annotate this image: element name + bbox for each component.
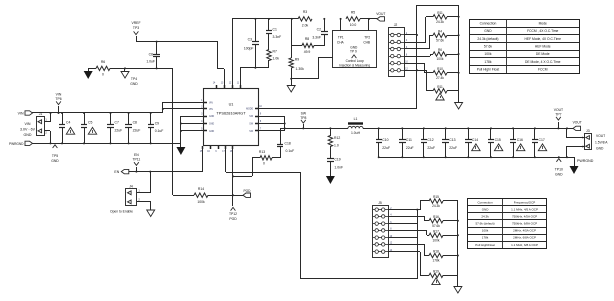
svg-text:Mode: Mode: [539, 22, 547, 26]
svg-text:22uF: 22uF: [406, 146, 414, 150]
wire U1 AGND pins bus: [180, 116, 204, 143]
svg-text:GND: GND: [130, 82, 138, 86]
svg-text:24.3k: 24.3k: [481, 215, 489, 219]
ground FREQ ladder: [454, 287, 462, 294]
svg-text:178k: 178k: [484, 60, 492, 64]
svg-text:R10: R10: [437, 67, 443, 71]
resistor R5 10.0: [346, 11, 360, 28]
test point TP6 VIN: [55, 93, 61, 115]
ground PWRGND arrow output: [570, 157, 594, 174]
label Open to Enable: [110, 210, 133, 214]
svg-text:TP5: TP5: [52, 154, 58, 158]
svg-text:PWRGND: PWRGND: [577, 159, 594, 163]
test point TP3 VREF: [131, 21, 140, 42]
svg-text:R13: R13: [259, 150, 265, 154]
wire MODE vertical bus: [417, 5, 460, 109]
svg-text:1.0uF: 1.0uF: [146, 60, 155, 64]
resistor R16 57.6k: [429, 215, 458, 228]
connector J1: [37, 112, 48, 136]
label J3 VOUT: [595, 134, 608, 151]
svg-text:TP8: TP8: [300, 116, 306, 120]
svg-text:R15: R15: [433, 195, 439, 199]
svg-text:22uF: 22uF: [382, 146, 390, 150]
svg-text:TP6: TP6: [55, 97, 61, 101]
capacitor C13 22uF: [442, 127, 457, 158]
svg-text:100k: 100k: [433, 239, 440, 243]
connector J3: [582, 129, 591, 150]
wire J2 row6 to R21: [404, 69, 433, 91]
resistor R17 100k: [429, 230, 458, 243]
wire U1 PG pin down: [232, 146, 234, 206]
wire U1 FREQ pin to selector J5: [226, 146, 418, 279]
wire J2 row2 to R11: [404, 17, 433, 43]
test point TP1 stub: [340, 18, 342, 31]
svg-text:Frequency/OCP: Frequency/OCP: [514, 200, 536, 204]
svg-text:C2: C2: [317, 28, 321, 32]
wire J5 row1 to R15: [388, 201, 429, 211]
svg-text:GND: GND: [209, 124, 214, 126]
svg-text:R11: R11: [437, 85, 443, 89]
capacitor C14 (DNP): [465, 127, 480, 158]
U1 top pin stubs: [213, 83, 241, 89]
svg-text:100k: 100k: [197, 200, 205, 204]
svg-text:1.0: 1.0: [334, 144, 339, 148]
resistor R15 24.3k: [429, 195, 458, 208]
svg-text:GND: GND: [484, 29, 492, 33]
svg-text:J2: J2: [394, 23, 398, 27]
svg-text:TP3: TP3: [133, 26, 139, 30]
svg-text:C7: C7: [115, 121, 119, 125]
wire U1 SW pins bus: [258, 116, 286, 131]
svg-text:22uF: 22uF: [427, 146, 435, 150]
wire J4 pin2 to ground: [137, 202, 151, 211]
terminal EN: [114, 169, 128, 174]
svg-text:CHB: CHB: [363, 40, 370, 44]
ground TP4: [121, 67, 138, 86]
svg-text:PGD: PGD: [244, 189, 252, 193]
wire J3 pin2 to ground rail: [566, 146, 585, 158]
svg-text:C16: C16: [517, 138, 523, 142]
svg-text:3.3nF: 3.3nF: [312, 36, 321, 40]
svg-text:HEF Mode: HEF Mode: [535, 45, 551, 49]
svg-text:Connection: Connection: [480, 22, 497, 26]
wire R13 to PG node: [233, 158, 253, 177]
resistor R13 0: [252, 150, 280, 166]
svg-text:C5: C5: [88, 121, 92, 125]
svg-text:J5: J5: [378, 201, 382, 205]
svg-text:VREF: VREF: [131, 21, 140, 25]
terminal VIN: [18, 111, 33, 116]
svg-text:C11: C11: [406, 138, 412, 142]
wire VREF rail to U1 pin: [218, 42, 225, 88]
svg-text:Connection: Connection: [477, 200, 493, 204]
svg-text:VIN: VIN: [209, 109, 213, 111]
svg-text:TP 9: TP 9: [350, 50, 357, 54]
svg-text:R16: R16: [433, 215, 439, 219]
svg-text:24.3k: 24.3k: [432, 204, 440, 208]
table frequency OCP configuration: [468, 199, 547, 249]
wire VOUT to J3 pin1: [566, 127, 585, 138]
svg-text:R8: R8: [305, 37, 309, 41]
svg-text:GND: GND: [51, 159, 59, 163]
svg-text:0.1uF: 0.1uF: [286, 149, 295, 153]
wire VIN input rail: [32, 112, 163, 114]
svg-text:VIN: VIN: [209, 103, 213, 105]
IC U1 TPS62810: [204, 89, 259, 146]
control loop injection box U2: [333, 31, 377, 68]
inductor L1 1.0uH: [348, 117, 363, 135]
wire J4 pin1 to EN: [137, 171, 151, 193]
wire SW rail to L1: [280, 128, 348, 130]
svg-text:1.0k: 1.0k: [273, 57, 280, 61]
svg-text:GND: GND: [555, 173, 563, 177]
svg-text:J3: J3: [586, 129, 590, 133]
capacitor C18 0.1uF snubber: [277, 128, 294, 158]
label VIN voltage range: [20, 122, 36, 137]
svg-text:PWRGND: PWRGND: [9, 142, 24, 146]
wire VOUT ground rail: [378, 157, 574, 159]
svg-text:2.0k: 2.0k: [302, 24, 309, 28]
wire VOUT rail: [363, 128, 573, 130]
wire VREF rail: [136, 41, 218, 43]
svg-text:C10: C10: [382, 138, 388, 142]
U1 bottom pin stubs: [200, 146, 233, 153]
wire R9 node to control loop box: [291, 58, 333, 80]
svg-text:57.6k: 57.6k: [436, 39, 444, 43]
wire J2 row1 to GND bus: [404, 34, 418, 36]
svg-text:1.1 MHz, 6/8 A OCP: 1.1 MHz, 6/8 A OCP: [511, 243, 538, 247]
resistor R12 1.0 snubber: [328, 127, 340, 147]
svg-text:VOUT: VOUT: [376, 12, 385, 16]
svg-text:VOUT: VOUT: [554, 108, 563, 112]
resistor R14 100k: [173, 187, 233, 204]
svg-text:C15: C15: [495, 138, 501, 142]
wire J5 row3 stub: [388, 223, 417, 225]
resistor R8 49.9: [292, 37, 324, 54]
svg-text:EN: EN: [114, 170, 119, 174]
svg-text:DE Mode: DE Mode: [536, 52, 550, 56]
svg-text:TP12: TP12: [229, 212, 237, 216]
svg-text:Control Loop: Control Loop: [346, 59, 364, 63]
resistor R21 (DNP): [433, 85, 459, 100]
svg-text:100k: 100k: [437, 57, 444, 61]
wire FREQ ladder GND bus: [457, 201, 459, 286]
svg-text:24.3k (default): 24.3k (default): [477, 37, 498, 41]
svg-text:2MHz, 6/8A OCP: 2MHz, 6/8A OCP: [513, 236, 536, 240]
svg-text:22uF: 22uF: [449, 146, 457, 150]
svg-text:VIN: VIN: [18, 112, 24, 116]
svg-text:R9: R9: [295, 58, 299, 62]
svg-text:DE Mode, 4 X O.C.Time: DE Mode, 4 X O.C.Time: [525, 60, 561, 64]
terminal VOUT right: [573, 121, 582, 131]
wire VIN rail to U1 VIN pins: [162, 102, 204, 113]
svg-text:VOUT: VOUT: [596, 134, 605, 138]
capacitor C10 22uF: [376, 127, 390, 158]
svg-text:TP2: TP2: [364, 36, 370, 40]
svg-text:1.0nF: 1.0nF: [334, 166, 343, 170]
svg-text:TP4: TP4: [131, 77, 137, 81]
svg-text:R12: R12: [334, 136, 340, 140]
capacitor C17 (DNP): [532, 127, 547, 158]
svg-text:750kHz, 6/8A OCP: 750kHz, 6/8A OCP: [512, 222, 537, 226]
ground below C19: [326, 176, 335, 184]
svg-text:100k: 100k: [482, 229, 489, 233]
svg-text:22uF: 22uF: [133, 129, 141, 133]
wire J1 pin2 to GND rail: [44, 131, 52, 145]
svg-text:R17: R17: [433, 230, 439, 234]
svg-text:0: 0: [102, 73, 104, 77]
svg-text:3.3nF: 3.3nF: [273, 35, 282, 39]
svg-text:C13: C13: [449, 138, 455, 142]
svg-text:1.1 MHz, 4/5 A OCP: 1.1 MHz, 4/5 A OCP: [511, 207, 538, 211]
capacitor C8 22uF: [125, 112, 140, 144]
test point TP8 SW: [300, 112, 307, 130]
svg-text:TP10: TP10: [555, 168, 563, 172]
test point TP11 EN: [132, 153, 140, 173]
svg-text:2MHz, 4/5A OCP: 2MHz, 4/5A OCP: [513, 229, 536, 233]
wire FB rail: [232, 19, 298, 89]
svg-text:57.6k: 57.6k: [432, 224, 440, 228]
capacitor C7 22uF: [107, 112, 122, 144]
svg-text:GND: GND: [482, 207, 490, 211]
svg-text:EN: EN: [134, 153, 139, 157]
svg-text:10.0: 10.0: [350, 23, 357, 27]
wire J5 row2 to R16: [388, 216, 429, 221]
svg-text:R11: R11: [437, 11, 443, 15]
svg-text:MODE: MODE: [246, 109, 253, 111]
svg-text:Open to Enable: Open to Enable: [110, 210, 133, 214]
capacitor C6 1.0uF: [146, 41, 160, 70]
wire J1 pin1 to VIN rail: [44, 112, 52, 122]
svg-text:1.30k: 1.30k: [296, 67, 305, 71]
ground below R9: [287, 78, 295, 92]
svg-text:R3: R3: [303, 10, 307, 14]
svg-text:GND: GND: [209, 131, 214, 133]
svg-text:3.0V - 6V: 3.0V - 6V: [20, 128, 36, 132]
wire EN line: [129, 146, 203, 172]
svg-text:R7: R7: [273, 50, 277, 54]
capacitor C19 1.0nF: [327, 146, 343, 176]
capacitor C2 3.3nF: [312, 18, 328, 46]
svg-text:C6: C6: [149, 53, 153, 57]
test point TP2 stub: [368, 18, 370, 31]
connector J5: [373, 201, 393, 258]
wire J5 row6 to R18: [388, 244, 429, 256]
svg-text:C17: C17: [539, 138, 545, 142]
resistor R7 1.0k: [267, 50, 279, 69]
U1 left pin stubs: [201, 100, 214, 133]
terminal VOUT top: [360, 12, 385, 21]
capacitor C3 100pF: [244, 18, 259, 68]
svg-text:HEF Mode, 4X O.C.Time: HEF Mode, 4X O.C.Time: [524, 37, 561, 41]
svg-text:49.9: 49.9: [304, 50, 311, 54]
svg-text:C3: C3: [248, 38, 252, 42]
capacitor C12 22uF: [421, 127, 435, 158]
wire comp network to U1 COMP pin: [240, 67, 269, 88]
resistor R18 178k: [429, 250, 458, 263]
svg-text:22uF: 22uF: [115, 129, 123, 133]
svg-text:GND: GND: [209, 116, 214, 118]
wire PWRGND rail: [32, 143, 181, 145]
wire J5 row4 to R17: [388, 230, 429, 236]
wire J5 row5 stub: [388, 237, 417, 239]
capacitor C1 3.3nF: [266, 18, 281, 50]
svg-text:C19: C19: [334, 158, 340, 162]
svg-text:J1: J1: [39, 112, 43, 116]
wire J2 row3 to R4: [404, 35, 433, 49]
svg-text:1.5V/8 A: 1.5V/8 A: [595, 141, 608, 145]
svg-text:CHA: CHA: [337, 40, 345, 44]
svg-text:C9: C9: [155, 122, 159, 126]
svg-text:57.6k: 57.6k: [484, 45, 492, 49]
resistor R19 (DNP): [429, 270, 458, 285]
svg-text:100pF: 100pF: [244, 47, 254, 51]
svg-text:R18: R18: [433, 250, 439, 254]
svg-text:R4: R4: [438, 30, 442, 34]
resistor R11 24.3k: [433, 11, 459, 24]
svg-text:VOUT: VOUT: [573, 121, 582, 125]
svg-text:FCCM , 4X O.C.Time: FCCM , 4X O.C.Time: [527, 29, 558, 33]
svg-text:R14: R14: [198, 187, 204, 191]
table MODE configuration: [470, 20, 580, 74]
terminal PWRGND: [9, 141, 33, 146]
capacitor C11 22uF: [399, 127, 414, 158]
svg-text:R6: R6: [101, 60, 105, 64]
svg-text:0: 0: [263, 162, 265, 166]
svg-text:TPS62810ARGT: TPS62810ARGT: [216, 111, 246, 116]
svg-text:GND: GND: [596, 147, 604, 151]
test point TP5 GND: [51, 145, 59, 163]
svg-text:27.4k: 27.4k: [436, 76, 444, 80]
capacitor C9 0.1uF: [148, 112, 163, 144]
wire J2 row5 to R10: [404, 63, 433, 73]
wire GND bus right of ladder: [458, 5, 460, 102]
svg-text:Pull High/ Float: Pull High/ Float: [477, 68, 499, 72]
svg-text:GND: GND: [24, 133, 32, 137]
resistor R9 1.30k: [289, 46, 304, 79]
svg-text:Injection & Measuring: Injection & Measuring: [339, 64, 370, 68]
capacitor C5 (DNP): [81, 112, 97, 144]
wire VREF node down to R14: [172, 68, 174, 195]
wire J5 row7 to R19: [388, 252, 429, 276]
svg-text:57.6k (default): 57.6k (default): [475, 222, 494, 226]
svg-text:SW: SW: [301, 112, 307, 116]
test point TP7 VOUT: [554, 108, 563, 129]
svg-text:178k: 178k: [433, 259, 440, 263]
resistor R10 27.4k: [433, 67, 459, 80]
connector J2: [389, 23, 409, 77]
svg-text:C8: C8: [133, 121, 137, 125]
resistor R4 57.6k: [433, 30, 459, 43]
ground PGND arrow below input rail: [176, 143, 185, 155]
svg-text:L1: L1: [354, 117, 358, 121]
capacitor C16 (DNP): [510, 127, 525, 158]
capacitor C4 (DNP): [59, 112, 75, 144]
ground below J4: [147, 210, 155, 217]
ground MODE ladder: [455, 103, 463, 110]
svg-text:J4: J4: [129, 184, 133, 188]
svg-text:C4: C4: [66, 121, 70, 125]
svg-text:C14: C14: [472, 138, 478, 142]
svg-text:VIN: VIN: [25, 122, 31, 126]
wire U1 MODE pin to selector: [258, 108, 417, 110]
connector J4: [126, 184, 141, 205]
svg-text:PGD: PGD: [229, 217, 237, 221]
svg-text:U1: U1: [229, 103, 234, 107]
terminal PGD: [233, 189, 251, 197]
svg-text:TP1: TP1: [338, 36, 344, 40]
test point TP12 PGD: [229, 207, 237, 221]
capacitor C15 (DNP): [488, 127, 503, 158]
svg-text:0.1uF: 0.1uF: [155, 129, 164, 133]
svg-text:1.0uH: 1.0uH: [351, 131, 361, 135]
svg-text:R6: R6: [438, 48, 442, 52]
svg-text:R19: R19: [433, 270, 439, 274]
test point TP10 GND: [555, 156, 563, 176]
svg-text:R5: R5: [351, 11, 355, 15]
wire J5 FREQ vertical bus: [417, 210, 419, 279]
svg-text:178k: 178k: [482, 236, 489, 240]
svg-text:C1: C1: [273, 28, 277, 32]
resistor R6 0: [88, 60, 173, 77]
svg-text:FCCM: FCCM: [538, 68, 548, 72]
svg-text:C12: C12: [427, 138, 433, 142]
svg-text:TP11: TP11: [132, 158, 140, 162]
wire J2 row4 to R6: [404, 54, 433, 57]
node FB junction: [291, 18, 293, 46]
svg-text:24.3k: 24.3k: [436, 20, 444, 24]
svg-text:750kHz, 4/5A OCP: 750kHz, 4/5A OCP: [512, 215, 537, 219]
svg-text:100k: 100k: [484, 52, 492, 56]
svg-text:Pull High/Float: Pull High/Float: [475, 243, 495, 247]
svg-text:C18: C18: [285, 142, 291, 146]
resistor R3 2.0k: [298, 10, 312, 28]
resistor R6 100k: [433, 48, 459, 61]
U1 right pin stubs: [246, 106, 262, 133]
ground arrow left of R6: [84, 68, 93, 79]
svg-text:TP7: TP7: [555, 113, 561, 117]
